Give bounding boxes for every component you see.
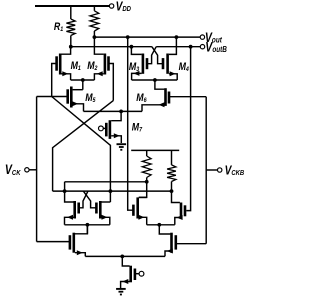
wire VCKB stub (206, 169, 217, 171)
label R1 (54, 21, 64, 33)
wire M6 drain (155, 80, 165, 89)
terminal VDD (109, 4, 113, 8)
wire M7 source (111, 133, 121, 143)
wire QCK2 source (165, 249, 173, 257)
wire M1/M2 common source rail (71, 79, 95, 81)
transistor QR1 gate bar (132, 205, 135, 216)
wire M3 gate lead (147, 47, 156, 64)
transistor QT gate bar (134, 269, 137, 281)
label M4 (179, 61, 190, 73)
node M3/M4 rail - M6 drain (153, 78, 157, 82)
wire M5 source (72, 101, 83, 111)
node line B diagA (109, 189, 113, 193)
wire VoutB line left part (71, 46, 152, 48)
wire QCK2 drain (159, 225, 170, 234)
transistor QCK1 channel (73, 233, 76, 253)
node tail rail center (120, 255, 124, 259)
wire Vout line (94, 36, 200, 38)
node line B R4 (170, 189, 174, 193)
wire VoutB to lower-right gate2 (186, 47, 190, 211)
label M5 (85, 92, 96, 104)
terminal VCK (25, 168, 29, 172)
wire Vout to lower-right gate (128, 37, 134, 210)
transistor QCK1 gate bar (69, 235, 72, 249)
transistor M4 gate bar (162, 58, 165, 69)
label VCK (5, 162, 22, 178)
wire QL2 source (99, 215, 110, 225)
wire M2 source (94, 71, 103, 80)
transistor QT channel (129, 266, 132, 283)
label M1 (71, 60, 82, 72)
wire M3/M4 common source rail (132, 79, 178, 81)
resistor R1 (66, 6, 75, 47)
wire line A (R3 node) (65, 181, 147, 183)
ground tail (116, 289, 126, 295)
wire R3 node to drain (139, 182, 147, 198)
transistor M7 gate bar (105, 123, 108, 137)
terminal VoutB (200, 45, 204, 49)
wire QL2 gate lead (83, 191, 96, 208)
transistor QL2 channel (99, 201, 102, 219)
wire QCK2 gate lead (176, 243, 206, 245)
transistor M2 channel (104, 54, 107, 75)
wire M4 drain (169, 37, 177, 54)
wire M1 source (62, 71, 71, 80)
transistor QCK2 gate bar (175, 235, 178, 249)
wire QR2 source (175, 215, 183, 225)
node R1-M1 drain (69, 45, 73, 49)
transistor QL1 channel (73, 201, 76, 219)
transistor QR1 channel (136, 197, 139, 218)
transistor M5 channel (70, 87, 73, 108)
node line B stub (63, 189, 67, 193)
label VDD (116, 0, 131, 14)
wire M7 drain (111, 111, 121, 120)
wire M5-M6 source line (84, 110, 143, 112)
wire M3 source (132, 71, 142, 80)
label VCKB (225, 163, 245, 177)
wire tail rail (85, 255, 165, 257)
node R3 - line A (145, 180, 149, 184)
transistor M4 channel (166, 54, 169, 74)
wire VoutB line right part (156, 46, 200, 48)
label Vout (205, 30, 222, 46)
label M2 (87, 60, 98, 72)
wire M4 gate lead (152, 47, 163, 64)
power rail VDD (35, 5, 109, 7)
wire M6 gate to VCKB vertical (205, 97, 207, 244)
wire QL2 drain lead (101, 201, 110, 203)
wire QCK1 drain (75, 225, 88, 234)
wire M2 gate cross diagonal (53, 101, 114, 192)
wire M1 gate cross diagonal (52, 97, 111, 203)
wire QR1 source (138, 215, 146, 225)
transistor M5 gate bar (66, 89, 69, 103)
transistor QCK2 channel (170, 233, 173, 253)
wire lower-left source rail (65, 224, 110, 226)
transistor M1 channel (59, 54, 62, 75)
transistor M7 channel (109, 120, 112, 139)
terminal QT gate bubble (135, 271, 144, 276)
wire QR2 drain (172, 191, 180, 202)
wire M4 source (169, 71, 177, 80)
wire QL1 source (65, 215, 76, 225)
ground M7 (117, 144, 127, 150)
transistor QL1 gate bar (77, 203, 80, 214)
resistor R4 (167, 150, 176, 191)
wire VCK stub (29, 169, 36, 171)
resistor R2 (load) (90, 6, 99, 37)
node R2-Vout (93, 35, 97, 39)
node Vout-lower-latch tap (126, 35, 130, 39)
terminal VCKB (218, 168, 222, 172)
wire QCK1 source (75, 250, 85, 256)
wire M2 drain (94, 37, 103, 54)
transistor M3 channel (142, 54, 145, 74)
wire M5 gate lead (37, 96, 68, 98)
label VoutB (205, 39, 227, 55)
node source line - M7 drain (119, 110, 123, 114)
wire lower-right source rail (147, 224, 175, 226)
wire M3 drain (131, 47, 141, 55)
wire VCK vertical (36, 97, 38, 242)
wire M6 source (142, 102, 165, 111)
wire QT source (121, 279, 130, 288)
node lower-left rail center (86, 223, 90, 227)
wire QR1 drain (139, 196, 147, 198)
transistor M6 gate bar (168, 92, 171, 104)
transistor M2 gate bar (107, 56, 110, 70)
transistor M3 gate bar (146, 58, 149, 69)
terminal Vout (200, 35, 204, 39)
node M1/M2 rail center (81, 78, 85, 82)
transistor QL2 gate bar (95, 203, 98, 214)
label M6 (136, 92, 147, 104)
transistor QR2 gate bar (184, 205, 187, 216)
transistor M1 gate bar (55, 56, 58, 70)
wire QL1 gate lead (79, 191, 88, 208)
resistor R3 (142, 150, 151, 181)
transistor QR2 channel (180, 203, 183, 220)
node Vout-M4 drain (175, 35, 179, 39)
wire M1 gate lead (52, 64, 57, 97)
node VoutB-lower tap (189, 45, 193, 49)
label M7 (132, 122, 143, 134)
wire lower-left drain stub (65, 182, 74, 202)
wire QCK1 gate lead (37, 241, 70, 243)
wire middle rail (131, 149, 179, 151)
node lower-right rail - clock drain (157, 223, 161, 227)
terminal M7 gate bubble (99, 126, 106, 131)
wire M1 drain (62, 47, 71, 55)
wire lower-left tail drop (86, 225, 88, 234)
wire QT drain (122, 256, 129, 266)
wire M6 gate lead (169, 96, 206, 98)
wire M2 gate lead (109, 64, 114, 101)
node VoutB-M3 drain (130, 45, 134, 49)
wire M5 drain (73, 89, 83, 91)
wire line B (53, 190, 171, 192)
wire M1/M2 tail drop (82, 80, 84, 90)
label M3 (129, 61, 140, 73)
transistor M6 channel (164, 88, 167, 106)
